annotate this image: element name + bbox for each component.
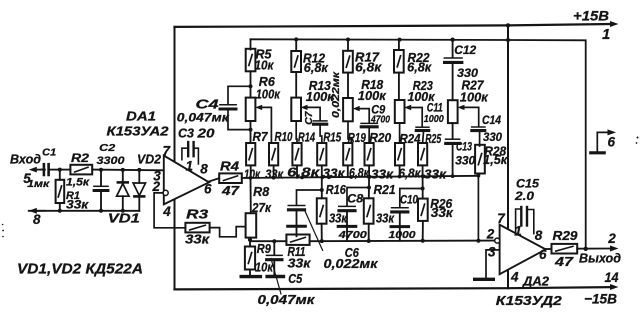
svg-text:R15: R15	[323, 131, 342, 145]
svg-text:2: 2	[486, 227, 495, 242]
capacitor C1 1mk	[42, 169, 44, 171]
resistor R12 6.8k	[295, 39, 297, 51]
svg-text:33к: 33к	[371, 168, 394, 182]
svg-text:R3: R3	[186, 208, 208, 222]
svg-text:47: 47	[221, 184, 241, 198]
resistor R4 47	[219, 173, 242, 183]
svg-text:С3: С3	[178, 127, 194, 141]
svg-text:33к: 33к	[323, 167, 346, 181]
svg-text:33к: 33к	[185, 233, 210, 247]
resistor R5 10k	[250, 39, 252, 49]
svg-text:20: 20	[196, 127, 214, 141]
R6 wiper arrow	[255, 105, 262, 110]
svg-text:С4: С4	[196, 98, 219, 112]
wire DA1 feedback to pin 2	[154, 193, 185, 228]
resistor R2 1.5k	[70, 165, 92, 175]
scan speck marks left margin	[2, 224, 4, 226]
wire R18 bottom to R19	[348, 121, 351, 143]
svg-text:6,8к: 6,8к	[399, 167, 422, 181]
svg-text:33к: 33к	[376, 212, 395, 226]
resistor R15 33k	[317, 143, 326, 165]
wire +15V top rail (box top edge, net +15V)	[175, 24, 611, 27]
R27 wiper arrow	[458, 105, 465, 110]
svg-text:С14: С14	[482, 113, 501, 127]
resistor R17 6.8k	[347, 40, 349, 51]
svg-text:ДА2: ДА2	[522, 275, 549, 289]
svg-text:С5: С5	[288, 272, 303, 286]
R13 wiper arrow	[301, 105, 308, 110]
svg-text:R2: R2	[71, 151, 89, 165]
resistor R19 6.8k	[343, 143, 352, 165]
svg-text:R7: R7	[253, 130, 269, 144]
resistor R1 33k	[59, 170, 61, 180]
svg-text:8: 8	[535, 228, 543, 243]
capacitor C15 2.0	[516, 209, 521, 233]
svg-text:R4: R4	[220, 160, 239, 174]
resistor R22 6.8k	[398, 40, 400, 50]
svg-text:6: 6	[607, 135, 615, 150]
svg-text:33к: 33к	[288, 257, 312, 271]
svg-text:4: 4	[162, 204, 171, 219]
capacitor C7 0.022mk	[313, 120, 328, 122]
svg-text:330: 330	[483, 130, 502, 144]
ground under R9	[240, 275, 263, 278]
svg-text:33к: 33к	[329, 212, 348, 226]
resistor R3 33k	[185, 223, 209, 233]
svg-text:3300: 3300	[97, 155, 126, 167]
terminal 2 output arrow	[610, 246, 619, 252]
resistor R7 10k	[250, 121, 252, 143]
svg-text:0,022мк: 0,022мк	[324, 257, 379, 271]
pointer line C5	[271, 259, 281, 295]
op-amp DA1 K153UA2	[164, 156, 209, 205]
potentiometer R13 100k	[295, 72, 297, 98]
terminal 6 common	[597, 132, 609, 151]
svg-text:0,047мк: 0,047мк	[177, 113, 230, 125]
wire leg R21 column	[368, 177, 370, 199]
wire R5 to R6	[250, 71, 252, 97]
svg-text:С8: С8	[347, 192, 363, 206]
svg-text:6,8к: 6,8к	[355, 61, 382, 75]
svg-text:R19: R19	[348, 131, 366, 145]
resistor R24 6.8k	[395, 143, 404, 165]
wire box right edge upper segment (DA2 pin 7 to +15V)	[507, 25, 509, 229]
resistor R28 1.5k	[475, 145, 485, 174]
svg-text:6,8к: 6,8к	[349, 166, 370, 180]
capacitor C11 1000	[415, 126, 429, 128]
svg-text:330: 330	[455, 154, 475, 168]
DA2 pin 3 wire and ground	[486, 250, 500, 278]
DA2 pin 2 inverting circle	[495, 238, 500, 243]
svg-text:6,8к: 6,8к	[407, 61, 432, 75]
svg-text:С1: С1	[42, 147, 56, 159]
svg-text:0,047мк: 0,047мк	[258, 293, 316, 307]
junction output feedback node	[584, 247, 588, 251]
capacitor C14 330	[471, 126, 486, 128]
DA2 pin 4 lead	[507, 270, 509, 288]
capacitor C2 3300	[100, 170, 102, 186]
svg-text:6,8к: 6,8к	[304, 61, 329, 75]
svg-text:2: 2	[151, 179, 160, 194]
capacitor C10 1000	[400, 189, 423, 208]
svg-text:6: 6	[204, 182, 212, 197]
op-amp DA2 K153UD2	[500, 225, 546, 275]
svg-text:VD2: VD2	[137, 153, 161, 167]
resistor R14 6.8k	[292, 143, 301, 165]
svg-text:DA1: DA1	[126, 109, 156, 124]
R23 wiper arrow	[404, 105, 411, 110]
svg-text:R14: R14	[298, 131, 315, 145]
svg-text:4700: 4700	[338, 229, 367, 241]
svg-text:С10: С10	[400, 193, 418, 207]
svg-text:2.0: 2.0	[514, 189, 534, 203]
svg-text:4: 4	[510, 270, 519, 285]
svg-text:27к: 27к	[251, 201, 272, 215]
svg-text:4700: 4700	[370, 114, 390, 126]
wire output	[577, 248, 611, 250]
R18 wiper arrow	[353, 106, 360, 111]
svg-text:33к: 33к	[66, 198, 89, 212]
svg-text:К153УД2: К153УД2	[496, 294, 562, 308]
svg-text:R29: R29	[553, 229, 578, 243]
wire box right edge lower segment (DA2 pin 4 to -15V)	[507, 270, 509, 288]
svg-text:+15В: +15В	[573, 8, 609, 24]
resistor R9 10k	[249, 240, 251, 247]
wire box left edge lower segment (DA1 pin 4 to -15V)	[174, 199, 176, 289]
svg-text:0,022мк: 0,022мк	[330, 71, 342, 118]
svg-text:С2: С2	[99, 142, 115, 154]
svg-text:100к: 100к	[358, 89, 387, 103]
svg-text:1: 1	[602, 27, 610, 43]
svg-text:8: 8	[200, 162, 208, 177]
svg-text:Вход: Вход	[10, 153, 41, 167]
svg-text:1: 1	[185, 159, 193, 174]
wire R13 bottom to R14	[295, 121, 298, 143]
resistor R20 33k	[365, 143, 374, 165]
svg-text:1000: 1000	[424, 113, 444, 125]
ground under C5	[265, 275, 285, 278]
wire DA1 output	[209, 178, 219, 181]
diode VD1	[122, 170, 124, 183]
wire input node A	[60, 169, 71, 171]
potentiometer R27 100k	[452, 63, 454, 101]
svg-text:33к: 33к	[431, 206, 454, 220]
terminal 14 arrow -15V	[610, 284, 619, 290]
svg-text:С13: С13	[456, 140, 472, 154]
wire node B	[92, 169, 164, 172]
diode VD2	[138, 170, 140, 183]
svg-text:−15В: −15В	[584, 291, 617, 307]
svg-text:1000: 1000	[389, 229, 416, 241]
wire R3 to R8/R9 node zigzag	[210, 227, 246, 237]
wire box left edge upper segment (DA1 pin 7 to +15V)	[174, 27, 176, 162]
svg-text:С7: С7	[303, 110, 315, 125]
svg-text:1мк: 1мк	[27, 178, 50, 190]
svg-text:С12: С12	[454, 43, 476, 57]
pointer line C6	[304, 209, 322, 250]
svg-text:R9: R9	[257, 242, 271, 256]
wire internal top bus	[251, 39, 586, 249]
svg-text:10к: 10к	[255, 261, 274, 275]
svg-text:100к: 100к	[460, 91, 489, 105]
wire -15V bottom rail (box bottom edge, net -15V)	[175, 287, 611, 289]
wire ground rail input	[29, 210, 140, 212]
potentiometer R23 100k	[398, 73, 400, 100]
svg-text:33к: 33к	[424, 168, 447, 182]
resistor R10 33k	[269, 143, 278, 165]
capacitor C4 0.047mk	[228, 86, 251, 104]
wire R23 bottom to R24	[399, 123, 401, 143]
svg-text:R10: R10	[275, 130, 293, 144]
resistor R8 27k	[250, 178, 252, 213]
svg-text:VD1: VD1	[108, 212, 140, 226]
resistor R29 47	[552, 244, 578, 254]
resistor R26 33k	[418, 199, 428, 221]
svg-text:100к: 100к	[256, 88, 281, 102]
capacitor C9 4700	[360, 122, 378, 124]
resistor R21 33k	[364, 198, 374, 223]
svg-text:VD1,VD2 КД522А: VD1,VD2 КД522А	[17, 262, 143, 278]
wire DA2 output	[546, 248, 552, 250]
svg-text:2: 2	[607, 231, 616, 246]
svg-text:47: 47	[554, 255, 575, 269]
wire leg R26 column	[422, 176, 424, 198]
svg-text:R20: R20	[369, 131, 391, 145]
capacitor C13 330	[452, 123, 454, 139]
svg-text:Выход: Выход	[579, 252, 621, 266]
potentiometer R6 100k	[246, 98, 256, 121]
svg-text:1,5к: 1,5к	[66, 177, 90, 189]
svg-text:10к: 10к	[255, 59, 275, 73]
svg-text:R16: R16	[326, 183, 347, 197]
svg-text:14: 14	[605, 269, 619, 285]
svg-text:6,8к: 6,8к	[287, 166, 320, 180]
resistor R25 33k	[418, 143, 427, 165]
terminal 1 arrow +15V	[610, 21, 619, 27]
wire leg R16 column	[321, 177, 323, 198]
capacitor C12 330	[452, 40, 454, 58]
svg-text:33к: 33к	[265, 168, 284, 182]
svg-text:R21: R21	[374, 183, 396, 197]
svg-text:3: 3	[488, 245, 496, 260]
terminal 5 input arrow	[32, 169, 46, 171]
svg-text:8: 8	[33, 212, 41, 227]
svg-text:1,5к: 1,5к	[483, 153, 508, 167]
svg-text:R25: R25	[425, 132, 442, 146]
terminal 8 arrow	[32, 210, 46, 212]
wire R11 to DA2 pin 2	[310, 240, 495, 243]
capacitor C3 correction	[182, 148, 187, 160]
capacitor C6 0.022mk	[297, 190, 322, 205]
potentiometer R18 100k	[347, 73, 349, 98]
wire lower bus (summing bus)	[242, 176, 479, 178]
resistor R11 33k	[286, 235, 309, 245]
capacitor C8 4700	[347, 188, 369, 206]
capacitor C5 0.047mk	[272, 239, 276, 243]
svg-text:К153УА2: К153УА2	[107, 125, 169, 139]
svg-text:R8: R8	[253, 185, 269, 199]
junction R8/R9 node	[248, 238, 252, 242]
resistor R16 33k	[317, 198, 327, 223]
wire R9 node to R11	[250, 240, 286, 242]
svg-text:10к: 10к	[244, 168, 261, 182]
